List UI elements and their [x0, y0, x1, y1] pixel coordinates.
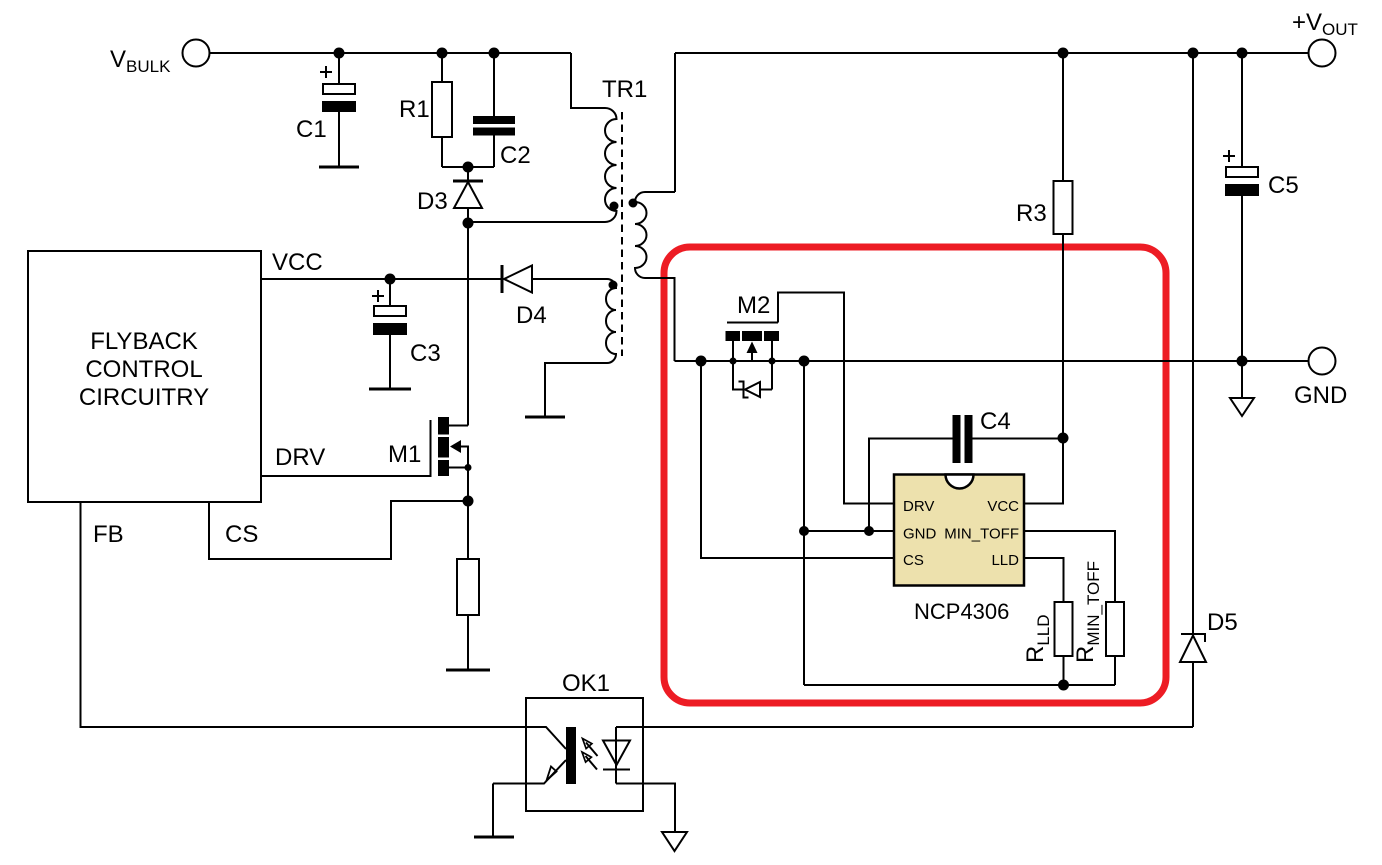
transformer TR1 primary winding [468, 53, 617, 222]
node junction C1 top [334, 48, 345, 59]
wire VCC net [261, 278, 502, 280]
wire MIN_TOFF pin net [1025, 531, 1115, 602]
capacitor C1 [319, 53, 359, 167]
wire M1 source down [467, 468, 469, 560]
TR1 core dashed line [621, 112, 623, 356]
OK1 phototransistor [493, 727, 576, 784]
svg-text:MIN_TOFF: MIN_TOFF [944, 526, 1019, 543]
resistor current sense [446, 559, 490, 670]
diode D4 [502, 265, 532, 293]
TR1 aux phase dot [609, 281, 618, 290]
svg-text:DRV: DRV [275, 444, 325, 471]
wire CS pin net [701, 361, 894, 558]
node junction M1 source [465, 464, 472, 471]
node junction D3 bottom [463, 218, 474, 229]
ground symbol OK1 triangle [662, 832, 687, 851]
svg-text:FB: FB [93, 521, 124, 548]
node junction C5 bottom [1237, 356, 1248, 367]
terminal GND [1309, 348, 1336, 375]
node junction M2 right pad [769, 358, 776, 365]
TR1 primary phase dot [610, 202, 619, 211]
node junction C4 right [1058, 433, 1069, 444]
svg-text:CS: CS [903, 552, 924, 569]
svg-text:VCC: VCC [987, 498, 1019, 515]
wire +VOUT top rail [675, 52, 1309, 54]
resistor R3 [1054, 53, 1073, 438]
svg-text:TR1: TR1 [602, 76, 647, 103]
transistor M2 [726, 323, 780, 362]
svg-text:M2: M2 [737, 292, 770, 319]
ground bar aux winding [525, 416, 565, 419]
NCP4306 highlight red rounded box [664, 247, 1166, 703]
OK1 LED [603, 727, 630, 784]
TR1 secondary phase dot [629, 199, 638, 208]
svg-text:GND: GND [903, 526, 937, 543]
capacitor C5 [1223, 53, 1259, 361]
terminal V_BULK [183, 40, 210, 67]
wire GND pin net [803, 361, 805, 685]
wire R1/C2 bottom link [442, 166, 494, 168]
ground symbol output triangle [1241, 361, 1243, 398]
wire GND rail [675, 360, 1309, 362]
transistor M1 [431, 417, 469, 477]
svg-text:VCC: VCC [272, 249, 323, 276]
svg-text:C1: C1 [296, 116, 327, 143]
svg-text:RMIN_TOFF: RMIN_TOFF [1072, 561, 1103, 663]
svg-text:D5: D5 [1207, 609, 1238, 636]
svg-text:LLD: LLD [991, 552, 1019, 569]
OK1 light arrows [582, 739, 598, 770]
resistor R1 [432, 53, 452, 167]
ground bar OK1 emitter [492, 784, 494, 838]
svg-text:RLLD: RLLD [1022, 614, 1053, 663]
diode D3 [453, 167, 483, 223]
svg-text:CONTROL: CONTROL [85, 356, 202, 383]
capacitor C4 [869, 415, 1063, 531]
svg-text:M1: M1 [388, 441, 421, 468]
node junction C4 left [864, 526, 874, 536]
resistor R_MIN_TOFF [1106, 602, 1124, 685]
optocoupler OK1 box [526, 698, 643, 811]
M2 body diode [733, 361, 772, 398]
node junction C3 top [385, 274, 396, 285]
box flyback control circuitry [28, 251, 261, 502]
svg-text:CS: CS [225, 521, 258, 548]
svg-text:GND: GND [1294, 382, 1347, 409]
svg-text:D3: D3 [417, 188, 448, 215]
IC U1 NCP4306 [894, 475, 1024, 586]
svg-text:R3: R3 [1016, 200, 1047, 227]
svg-text:VBULK: VBULK [110, 46, 171, 76]
wire VCC pin net [1025, 438, 1063, 504]
svg-text:FLYBACK: FLYBACK [90, 328, 198, 355]
resistor R_LLD [1055, 602, 1073, 685]
svg-text:+VOUT: +VOUT [1292, 9, 1358, 39]
wire LLD pin net [1025, 558, 1064, 602]
node junction GND rail right [799, 356, 810, 367]
wire bottom rail LLD/MIN_TOFF [804, 684, 1115, 686]
node junction R_LLD bottom [1058, 680, 1069, 691]
svg-text:C3: C3 [410, 340, 441, 367]
node junction GND pin [799, 526, 809, 536]
wire OK1 LED cathode [616, 784, 675, 833]
svg-text:C5: C5 [1268, 172, 1299, 199]
wire M2 gate to DRV pin [778, 293, 894, 504]
node junction GND rail left [696, 356, 707, 367]
transformer TR1 auxiliary winding [532, 279, 616, 417]
node junction CS sense [463, 496, 474, 507]
svg-text:OK1: OK1 [562, 670, 610, 697]
node junction D3 top [463, 162, 474, 173]
svg-text:D4: D4 [516, 302, 547, 329]
wire CS net [209, 501, 468, 559]
diode D5 [1180, 53, 1206, 727]
svg-text:CIRCUITRY: CIRCUITRY [79, 384, 209, 411]
wire D3 to M1 drain [467, 223, 469, 426]
wire DRV net [261, 475, 431, 477]
capacitor C2 [473, 53, 515, 167]
node junction R3 top [1058, 48, 1069, 59]
node junction C2 top [489, 48, 500, 59]
node junction R1 top [437, 48, 448, 59]
node junction M2 left pad [730, 358, 737, 365]
capacitor C3 [369, 279, 411, 389]
transformer TR1 secondary winding [635, 192, 675, 361]
wire secondary top to +VOUT rail [674, 53, 676, 192]
node junction C5 top [1237, 48, 1248, 59]
svg-text:C2: C2 [500, 142, 531, 169]
svg-text:DRV: DRV [903, 498, 934, 515]
svg-text:C4: C4 [980, 408, 1011, 435]
svg-text:NCP4306: NCP4306 [914, 599, 1009, 624]
svg-text:R1: R1 [399, 96, 430, 123]
terminal +VOUT [1309, 40, 1336, 67]
node junction D5 top [1188, 48, 1199, 59]
wire top-left rail [210, 52, 572, 54]
wire FB net [81, 502, 527, 727]
wire OK1 LED anode to D5 [616, 726, 1193, 728]
